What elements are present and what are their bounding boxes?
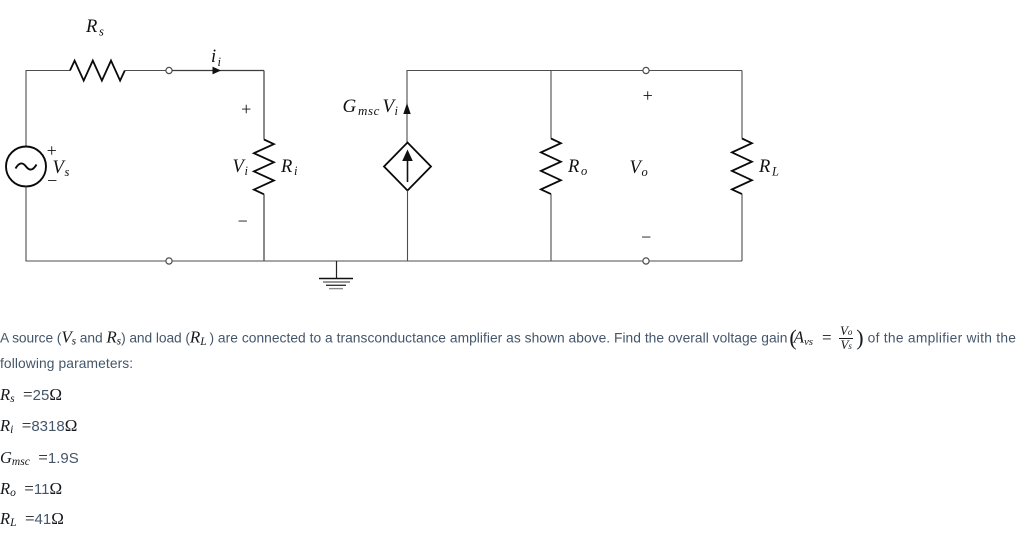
parameter Ri <box>0 416 77 436</box>
label Rs <box>85 17 104 39</box>
question text line 1 <box>0 323 1016 353</box>
svg-text:−: − <box>640 227 652 247</box>
wire: down to Ro <box>550 71 552 139</box>
resistor RL <box>732 139 752 195</box>
wire: terminal to Ri corner <box>172 70 264 72</box>
svg-text:o: o <box>581 164 587 178</box>
wire: down to Ri <box>263 71 265 140</box>
resistor Ro <box>541 139 561 195</box>
svg-text:i: i <box>395 104 399 118</box>
wire: left rail top (Vs top to top wire) <box>26 71 70 147</box>
svg-text:i: i <box>294 164 298 178</box>
wire: Vs bottom to bottom rail <box>26 187 166 262</box>
parameter Gmsc <box>0 448 79 468</box>
node: input terminal (open circle, top) <box>166 67 172 73</box>
svg-text:i: i <box>218 55 222 69</box>
wire: Ro to bottom rail <box>550 194 552 261</box>
label Vs <box>53 158 70 179</box>
svg-text:G: G <box>343 96 357 117</box>
svg-text:msc: msc <box>358 103 380 118</box>
label Vi <box>233 157 249 178</box>
node: bottom-right terminal (open circle) <box>643 258 649 264</box>
voltage source Vs (circle with sine) <box>6 147 46 187</box>
svg-text:i: i <box>211 47 216 67</box>
label Ro <box>567 157 587 178</box>
wire: Ri to bottom rail <box>263 194 265 261</box>
parameter RL <box>0 509 64 529</box>
wire: top rail to Ro and output terminal <box>551 70 643 72</box>
label Gmsc Vi <box>343 96 399 118</box>
svg-text:+: + <box>642 86 654 106</box>
arrow inside diamond <box>402 150 413 183</box>
resistor Rs <box>70 61 125 81</box>
dependent current source (diamond) <box>384 143 431 191</box>
label Ri <box>280 157 298 178</box>
wire: RL to bottom rail <box>741 194 743 261</box>
label RL <box>758 157 779 179</box>
arrow: input current direction <box>213 67 222 75</box>
svg-text:−: − <box>237 211 249 231</box>
svg-text:+: + <box>240 99 252 119</box>
wire: bottom rail right <box>649 260 742 262</box>
svg-text:s: s <box>99 25 104 39</box>
arrow: Gmsc Vi current direction <box>403 103 410 114</box>
svg-text:R: R <box>758 157 770 177</box>
svg-text:i: i <box>245 164 249 178</box>
wire: down to RL <box>741 71 743 139</box>
parameter Ro <box>0 479 62 499</box>
label ii <box>211 47 222 69</box>
wire: source bottom to bottom rail <box>407 191 409 262</box>
question text line 2 <box>0 356 133 371</box>
wire: bottom rail middle <box>172 260 643 262</box>
svg-text:s: s <box>65 165 70 179</box>
label Vo <box>630 158 648 179</box>
parameter Rs <box>0 385 62 405</box>
wire: terminal to RL corner <box>649 70 742 72</box>
node: output terminal top (open circle) <box>643 67 649 73</box>
circuit schematic <box>0 0 1024 310</box>
svg-text:R: R <box>85 17 97 37</box>
wire: Rs to input terminal <box>125 70 166 72</box>
svg-text:R: R <box>280 157 292 177</box>
ground <box>319 261 353 289</box>
wire: dependent source branch top <box>407 71 551 143</box>
node: bottom-left terminal (open circle) <box>166 258 172 264</box>
svg-text:R: R <box>567 157 579 177</box>
resistor Ri <box>254 140 274 195</box>
svg-text:o: o <box>642 165 648 179</box>
sine wave inside source <box>16 163 37 169</box>
svg-text:L: L <box>771 165 779 179</box>
svg-text:−: − <box>46 171 58 191</box>
